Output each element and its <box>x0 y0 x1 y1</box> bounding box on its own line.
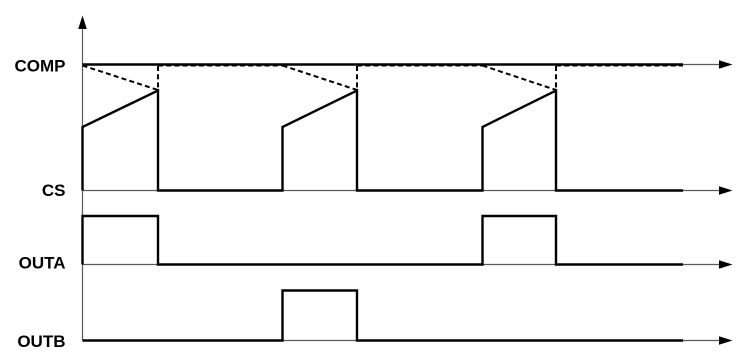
y-axis <box>82 22 84 341</box>
svg-text:COMP: COMP <box>15 56 66 75</box>
OUTB axis <box>83 340 723 342</box>
svg-text:OUTA: OUTA <box>19 254 66 273</box>
COMP axis arrowhead <box>719 60 733 69</box>
dashed slope ramp period 2 <box>283 66 358 91</box>
OUTA axis <box>83 264 723 266</box>
dashed vertical at third peak <box>555 66 557 90</box>
dashed vertical at second peak <box>356 66 358 90</box>
COMP axis <box>83 64 723 66</box>
dashed COMP hold segment 3 <box>556 65 683 67</box>
OUTB axis arrowhead <box>719 336 733 345</box>
dashed COMP hold segment 2 <box>357 65 483 67</box>
CS axis arrowhead <box>719 186 733 195</box>
svg-text:OUTB: OUTB <box>17 332 65 351</box>
dashed slope ramp period 3 <box>483 66 557 91</box>
OUTA axis arrowhead <box>719 260 733 269</box>
dashed slope ramp period 1 <box>83 66 159 91</box>
OUTA waveform <box>83 216 684 265</box>
OUTB waveform <box>83 291 684 341</box>
CS axis <box>83 190 723 192</box>
CS waveform <box>83 91 684 191</box>
y-axis arrowhead <box>78 16 87 30</box>
dashed vertical at first peak <box>157 66 159 90</box>
dashed COMP hold segment 1 <box>158 65 283 67</box>
COMP level line <box>83 63 684 65</box>
svg-text:CS: CS <box>42 181 66 200</box>
